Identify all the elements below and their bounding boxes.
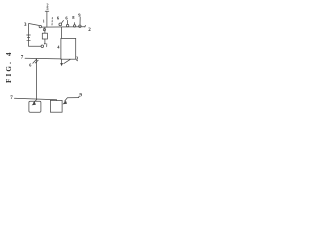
wire stub into box B bbox=[56, 99, 58, 102]
wire lead from 3 to contact bbox=[29, 24, 39, 26]
wire bus to box 4 bbox=[60, 27, 62, 38]
svg-text:8: 8 bbox=[72, 15, 75, 20]
contact circle below bus bbox=[43, 29, 45, 31]
resistor R box bbox=[42, 33, 47, 39]
terminal label 25 bbox=[47, 2, 49, 10]
dashed link bbox=[51, 18, 53, 26]
node 7 label bottom bbox=[10, 96, 13, 101]
wire long vertical bbox=[36, 59, 38, 99]
contact circle c bbox=[73, 25, 75, 27]
wire bus to resistor bbox=[44, 27, 46, 33]
arrowhead lower lead bbox=[44, 43, 46, 45]
tick end of lead bbox=[78, 96, 81, 97]
svg-text:6: 6 bbox=[65, 15, 68, 20]
contact b stub bbox=[67, 20, 69, 24]
switch wiper contact bbox=[59, 23, 62, 26]
label above wiper bbox=[57, 15, 60, 20]
contact c label bbox=[72, 15, 75, 20]
tick left of terminal wire bbox=[43, 20, 45, 23]
contact circle b bbox=[66, 24, 68, 26]
svg-text:7: 7 bbox=[21, 56, 24, 61]
output arrow from box 4 bbox=[61, 59, 63, 63]
arrowhead output bbox=[60, 63, 63, 66]
svg-text:7: 7 bbox=[10, 96, 13, 101]
label 9 bottom right bbox=[79, 93, 82, 98]
svg-text:5: 5 bbox=[47, 6, 49, 11]
battery cell plates bbox=[27, 35, 31, 40]
FIG. 4 caption bbox=[5, 50, 13, 83]
contact c stub bbox=[74, 23, 76, 25]
node 7 label mid bbox=[21, 56, 24, 61]
wire bus end tick bbox=[84, 25, 87, 27]
wiper arm bbox=[61, 21, 63, 24]
arrowhead box B bbox=[63, 101, 68, 105]
tick below label 3 bbox=[76, 59, 77, 62]
svg-text:FIG. 4: FIG. 4 bbox=[5, 50, 13, 83]
block box B bbox=[50, 100, 62, 112]
wire bus bbox=[42, 26, 86, 28]
wire terminal down to bus bbox=[46, 11, 48, 27]
lead label 6 mid bbox=[33, 59, 38, 63]
node 3 label right bbox=[76, 56, 79, 61]
lead line from label 3 bbox=[64, 59, 70, 63]
svg-text:3: 3 bbox=[24, 23, 27, 28]
svg-text:6: 6 bbox=[29, 63, 31, 68]
label 6 mid bbox=[29, 63, 31, 68]
block box A bbox=[29, 101, 41, 112]
contact circle d bbox=[79, 25, 81, 27]
contact circle left bbox=[39, 25, 41, 27]
block box 4 bbox=[61, 38, 76, 59]
wire left branch bottom bbox=[29, 45, 41, 47]
svg-text:6: 6 bbox=[57, 15, 60, 20]
left branch wire down bbox=[28, 24, 30, 47]
arrowhead box A bbox=[32, 102, 36, 106]
svg-text:9: 9 bbox=[79, 93, 82, 98]
node 3 label bbox=[24, 23, 27, 28]
arrow into box A bbox=[33, 99, 37, 103]
contact tick right bbox=[46, 44, 48, 47]
contact d stub bbox=[79, 17, 81, 25]
svg-text:4: 4 bbox=[57, 44, 60, 49]
svg-text:2: 2 bbox=[88, 28, 91, 33]
wire mid horizontal bbox=[25, 57, 61, 60]
wire resistor lower lead bbox=[44, 39, 46, 43]
contact d label bbox=[78, 12, 81, 17]
node 2 label bbox=[88, 28, 91, 33]
contact b label bbox=[65, 15, 68, 20]
svg-text:9: 9 bbox=[78, 12, 81, 17]
label 9 lead bbox=[65, 98, 79, 102]
wire bottom horizontal bbox=[14, 98, 56, 100]
contact circle e bbox=[41, 45, 44, 48]
label 4 bbox=[57, 44, 60, 49]
terminal T-bar bbox=[45, 10, 49, 12]
